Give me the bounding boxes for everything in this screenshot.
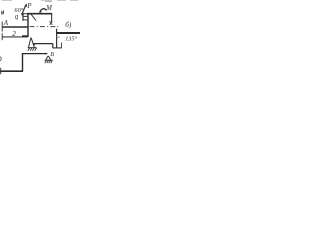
svg-text:60°: 60° [14, 7, 23, 14]
svg-text:P: P [26, 2, 32, 10]
svg-text:B: B [50, 52, 54, 58]
svg-text:A: A [3, 19, 9, 27]
svg-text:135°: 135° [65, 36, 77, 43]
svg-text:б): б) [65, 21, 72, 29]
svg-text:M: M [45, 5, 52, 12]
svg-text:2: 2 [12, 29, 16, 38]
